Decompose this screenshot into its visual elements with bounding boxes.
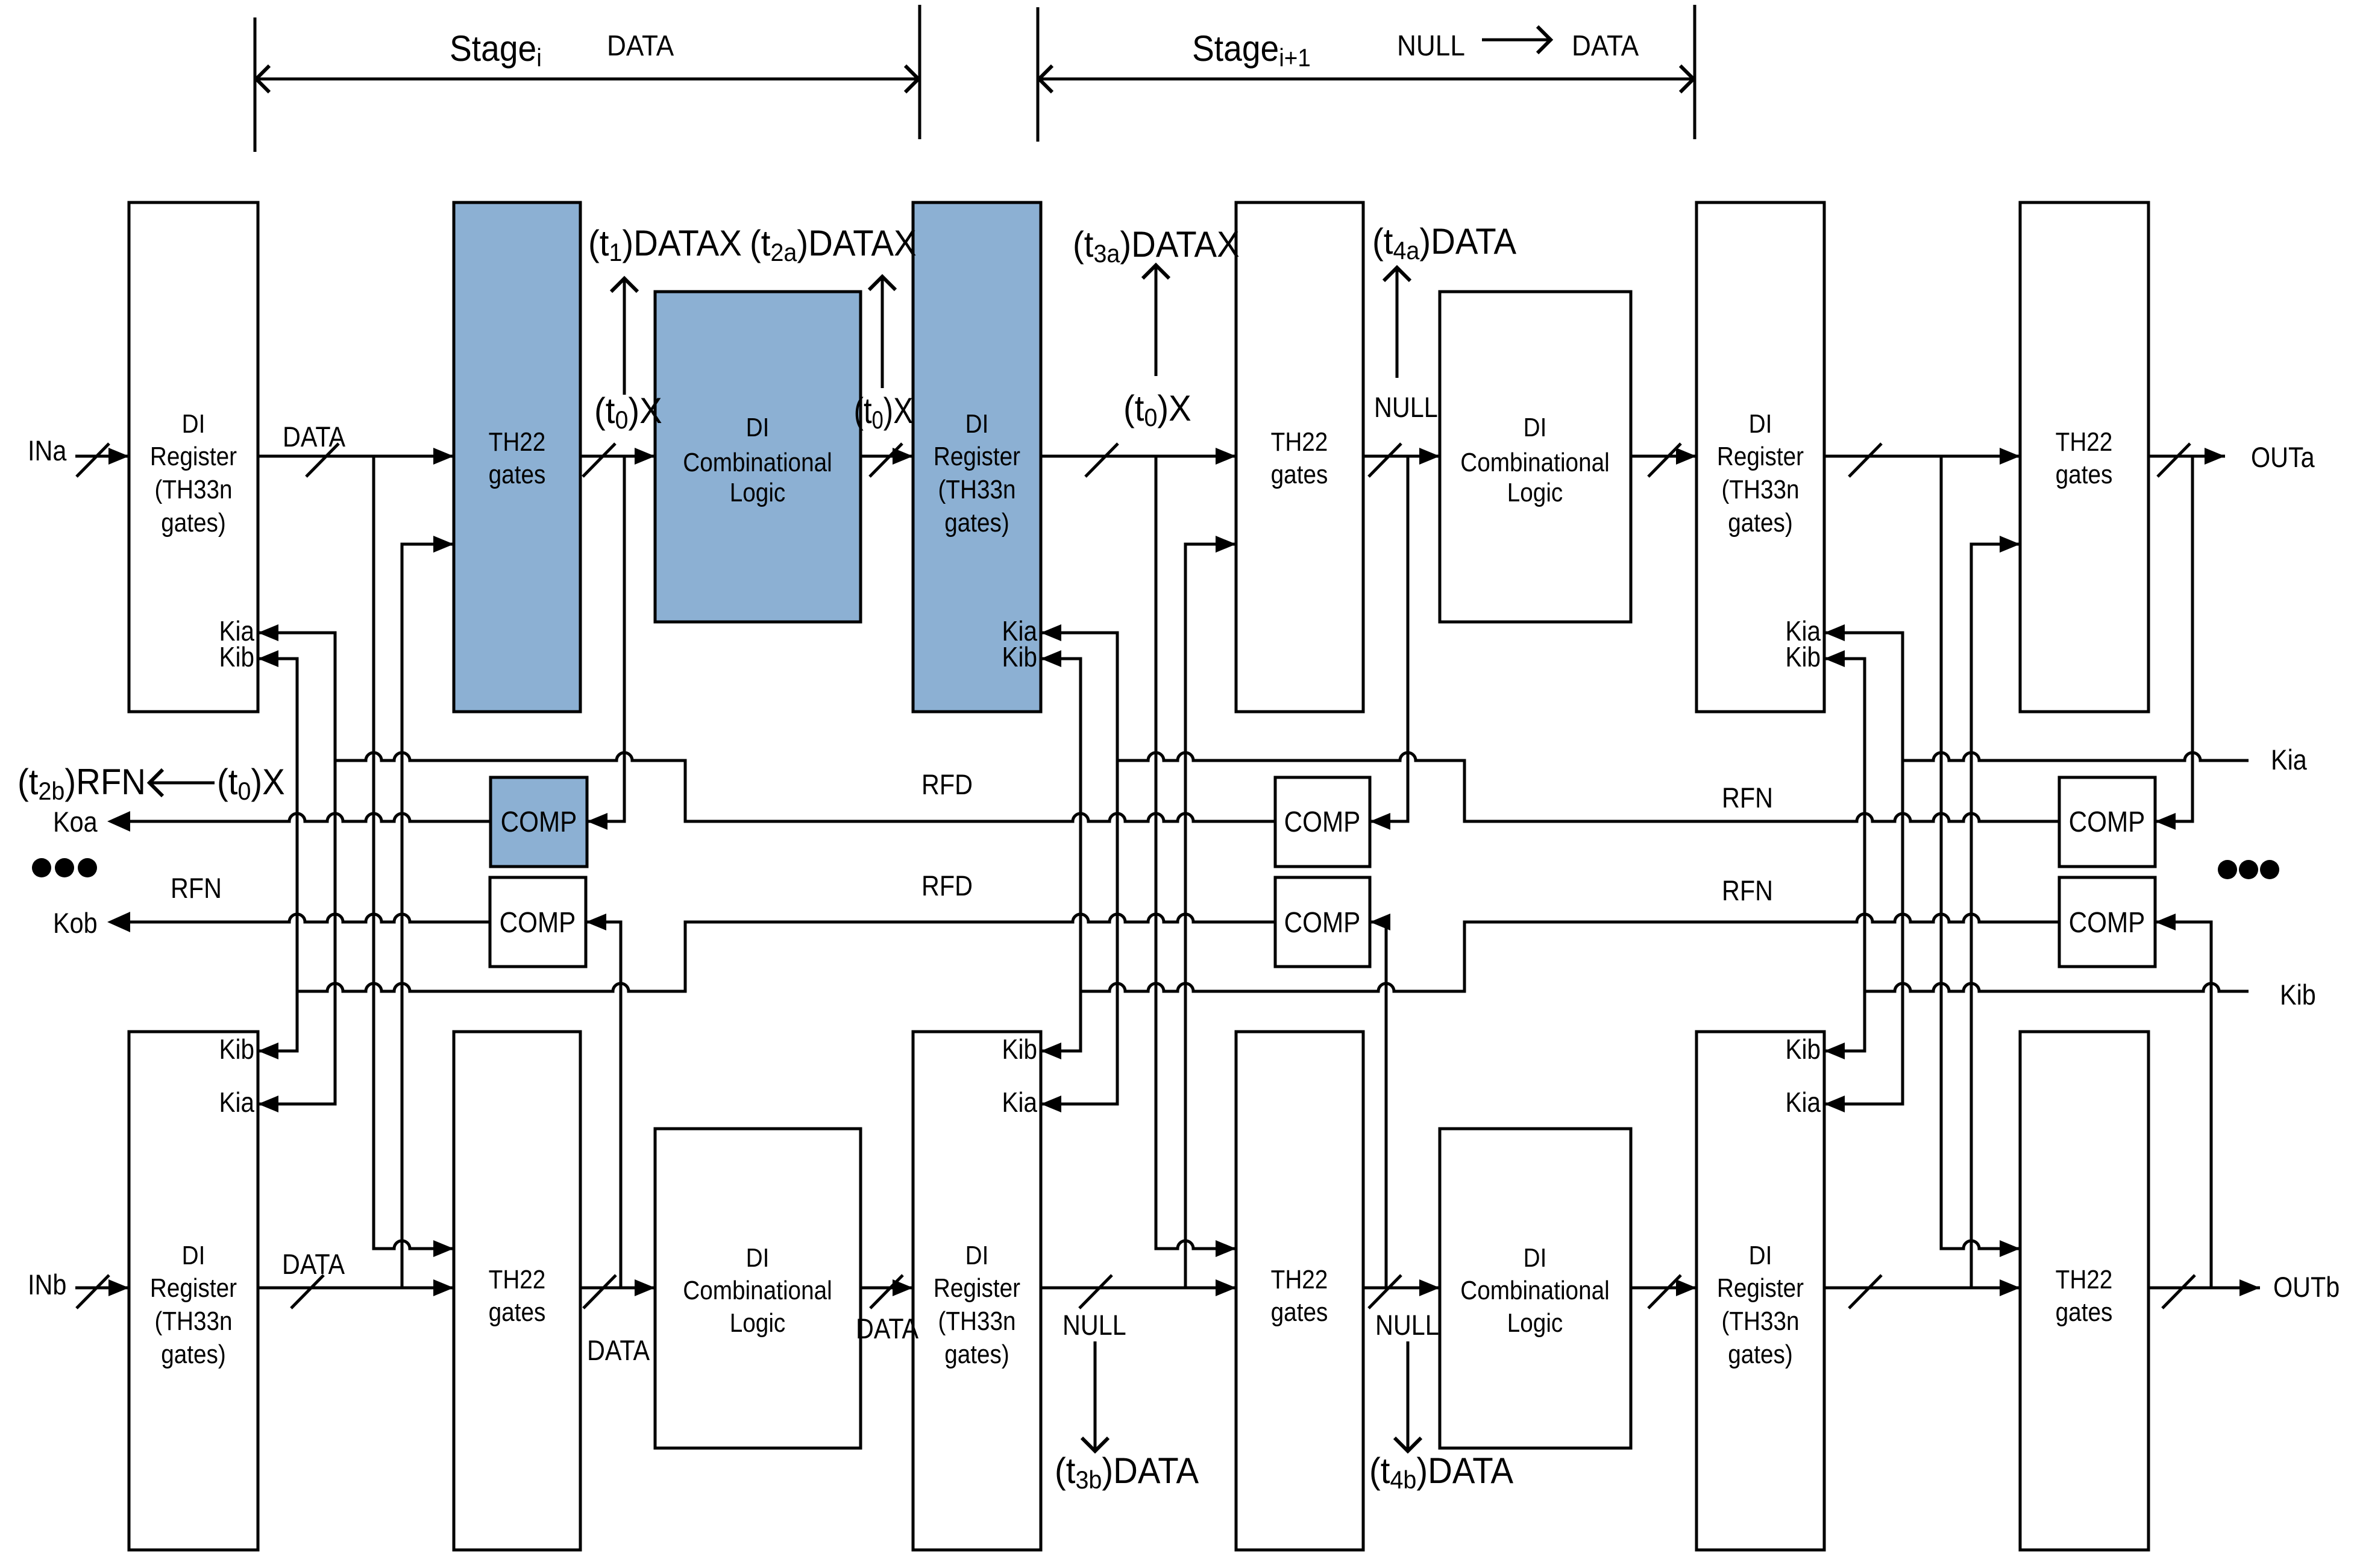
annotation arrow t3b DATA down xyxy=(1094,1341,1097,1451)
svg-text:DI: DI xyxy=(182,409,206,439)
wire E1 output branch down to COMP3 input xyxy=(1370,456,1408,821)
DI register D1 (TH33n) (highlighted) xyxy=(913,202,1041,712)
completion detector COMP2 xyxy=(490,877,586,967)
wire second input to E2 via W3' xyxy=(1156,456,1236,1249)
svg-text:DI: DI xyxy=(1524,412,1547,442)
svg-text:COMP: COMP xyxy=(1284,805,1361,838)
svg-text:COMP: COMP xyxy=(2069,805,2145,838)
svg-text:DI: DI xyxy=(182,1240,206,1270)
svg-text:DI: DI xyxy=(1524,1243,1547,1273)
svg-text:gates: gates xyxy=(2056,1297,2113,1327)
svg-text:RFN: RFN xyxy=(1722,876,1773,907)
wire F2 to G2 xyxy=(1631,1287,1696,1290)
svg-text:RFD: RFD xyxy=(921,770,973,801)
svg-text:TH22: TH22 xyxy=(2056,427,2113,457)
svg-text:DATA: DATA xyxy=(1572,29,1639,61)
svg-text:gates: gates xyxy=(489,459,546,489)
stage-i dimension bar right xyxy=(918,5,921,139)
svg-text:Kib: Kib xyxy=(2280,980,2316,1011)
wire Kia to D1 and D2 via W2' xyxy=(1041,633,1117,1104)
wire second input to B1 from bottom rail via W4 xyxy=(402,544,454,1288)
svg-text:TH22: TH22 xyxy=(1271,427,1328,457)
svg-text:Kia: Kia xyxy=(1786,1088,1821,1118)
svg-text:gates): gates) xyxy=(1728,1339,1793,1369)
svg-text:Register: Register xyxy=(150,1273,237,1303)
stage-i+1 dimension bar left xyxy=(1037,7,1040,142)
DI register G2 (TH33n) xyxy=(1696,1032,1824,1550)
wire B2 output branch up to COMP2 input xyxy=(586,922,621,1288)
svg-text:Logic: Logic xyxy=(1507,477,1563,507)
svg-text:DATA: DATA xyxy=(856,1314,919,1345)
stage-i+1 dim arrow left xyxy=(1039,66,1052,92)
svg-text:gates): gates) xyxy=(1728,507,1793,538)
TH22 gates E1 xyxy=(1236,202,1363,712)
DI combinational logic F2 xyxy=(1440,1129,1631,1448)
annotation arrow t2b RFN left xyxy=(149,782,215,785)
svg-text:DATA: DATA xyxy=(283,422,346,453)
annotation arrow t1 DATAX up xyxy=(623,278,626,395)
svg-text:DI: DI xyxy=(746,412,770,442)
wire A2 to B2 DATA xyxy=(258,1287,454,1290)
svg-text:(TH33n: (TH33n xyxy=(154,474,232,504)
svg-text:(TH33n: (TH33n xyxy=(154,1306,232,1336)
annotation arrow t2a DATAX up xyxy=(881,277,884,388)
svg-text:(TH33n: (TH33n xyxy=(1721,474,1799,504)
svg-text:Logic: Logic xyxy=(1507,1308,1563,1338)
DI register A2 (TH33n) bottom row INb xyxy=(129,1032,258,1550)
svg-text:DI: DI xyxy=(965,409,989,439)
wire D2 to E2 xyxy=(1041,1287,1236,1290)
svg-text:Kia: Kia xyxy=(1002,1088,1038,1118)
wire Kib to D1 and D2 via W1' xyxy=(1041,659,1081,1051)
wire G1 to H1 xyxy=(1824,455,2020,458)
wire RFN feedback from COMP5 to Kia of D registers xyxy=(1117,753,2059,821)
wire F1 to G1 xyxy=(1631,455,1696,458)
svg-text:gates): gates) xyxy=(161,1339,226,1369)
svg-text:NULL: NULL xyxy=(1375,1310,1439,1341)
wire C2 to D2 xyxy=(861,1287,913,1290)
wire H2 to OUTb xyxy=(2148,1287,2260,1290)
wire second input to H1 via W4'' xyxy=(1971,544,2020,1288)
svg-text:OUTb: OUTb xyxy=(2273,1272,2340,1303)
svg-text:(t0)X: (t0)X xyxy=(594,390,662,434)
stage-i+1 dimension bar right xyxy=(1693,5,1696,139)
wire E1 to F1 xyxy=(1363,455,1440,458)
svg-text:gates): gates) xyxy=(161,507,226,538)
svg-text:RFN: RFN xyxy=(1722,783,1773,814)
svg-text:Register: Register xyxy=(1717,441,1804,471)
wire E2 output branch up to COMP4 input xyxy=(1370,922,1386,1288)
svg-text:DI: DI xyxy=(746,1243,770,1273)
annotation arrow t4a DATA up xyxy=(1396,268,1399,378)
arrowhead Kob xyxy=(107,912,130,932)
wire B1 to C1 xyxy=(580,455,655,458)
TH22 gates B1 (highlighted) xyxy=(454,202,580,712)
svg-text:Kib: Kib xyxy=(1786,642,1821,673)
svg-text:COMP: COMP xyxy=(500,906,576,938)
svg-text:Kib: Kib xyxy=(1002,642,1037,673)
ellipsis dots left xyxy=(32,858,51,877)
stage-i+1 dim arrow right xyxy=(1680,66,1693,92)
svg-text:(TH33n: (TH33n xyxy=(938,474,1015,504)
svg-text:RFD: RFD xyxy=(921,871,973,902)
svg-text:DI: DI xyxy=(1749,409,1772,439)
DI combinational logic C2 xyxy=(655,1129,861,1448)
wire RFN feedback from COMP6 to Kib of D registers xyxy=(1081,914,2059,991)
svg-text:TH22: TH22 xyxy=(489,427,546,457)
DI register D2 (TH33n) xyxy=(913,1032,1041,1550)
wire RFD feedback from COMP3 to Kia of A registers xyxy=(335,753,1275,821)
wire G2 to H2 xyxy=(1824,1287,2020,1290)
svg-text:Kib: Kib xyxy=(1786,1035,1821,1065)
stage-i dimension bar left xyxy=(254,17,257,152)
svg-text:(TH33n: (TH33n xyxy=(938,1306,1015,1336)
wire Kib to G1 and G2 via W1'' xyxy=(1824,659,1865,1051)
stage-i dim arrow left xyxy=(256,66,269,92)
svg-text:RFN: RFN xyxy=(171,873,222,905)
wire RFD feedback from COMP4 to Kib of A registers xyxy=(297,914,1275,991)
svg-text:Register: Register xyxy=(1717,1273,1804,1303)
wire A1 to B1 DATA xyxy=(258,455,454,458)
svg-text:OUTa: OUTa xyxy=(2251,442,2315,474)
TH22 gates H2 xyxy=(2020,1032,2148,1550)
svg-text:TH22: TH22 xyxy=(1271,1264,1328,1294)
stage-i dimension line xyxy=(255,78,920,81)
annotation arrow t3a DATAX up xyxy=(1155,265,1158,376)
svg-text:Combinational: Combinational xyxy=(1460,447,1609,477)
svg-text:(t0)X: (t0)X xyxy=(1123,388,1191,431)
wire C1 to D1 xyxy=(861,455,913,458)
svg-text:Kob: Kob xyxy=(53,908,98,939)
wire Kia to G1 and G2 via W2'' xyxy=(1824,633,1903,1104)
TH22 gates B2 xyxy=(454,1032,580,1550)
DI combinational logic C1 (highlighted) xyxy=(655,292,861,622)
svg-text:TH22: TH22 xyxy=(2056,1264,2113,1294)
stage-i+1 dimension line xyxy=(1038,78,1695,81)
wire B1 output branch down to COMP1 input xyxy=(587,456,624,821)
TH22 gates H1 xyxy=(2020,202,2148,712)
svg-text:gates): gates) xyxy=(944,1339,1009,1369)
svg-text:Koa: Koa xyxy=(53,807,98,838)
svg-text:Stagei: Stagei xyxy=(450,29,542,72)
svg-text:DATA: DATA xyxy=(282,1249,345,1281)
svg-text:NULL: NULL xyxy=(1397,29,1465,61)
svg-text:Combinational: Combinational xyxy=(683,447,832,477)
svg-text:(TH33n: (TH33n xyxy=(1721,1306,1799,1336)
wire COMP1 output to Koa xyxy=(128,814,491,821)
wire second input to B2 from top rail via W3 xyxy=(374,456,454,1249)
svg-text:(t2b)RFN: (t2b)RFN xyxy=(17,762,146,805)
svg-text:Logic: Logic xyxy=(730,477,786,507)
svg-text:INa: INa xyxy=(28,436,67,467)
svg-text:Register: Register xyxy=(150,441,237,471)
wire second input to E1 via W4' xyxy=(1185,544,1236,1288)
svg-text:NULL: NULL xyxy=(1374,392,1438,424)
svg-text:gates): gates) xyxy=(944,507,1009,538)
wire Kib to A1 and A2 via W1 xyxy=(258,659,297,1051)
svg-text:INb: INb xyxy=(28,1270,66,1301)
svg-text:Kib: Kib xyxy=(1002,1035,1037,1065)
wire H1 output branch down to COMP5 input xyxy=(2155,456,2192,821)
svg-text:Register: Register xyxy=(934,1273,1020,1303)
wire external Kia bus to G registers xyxy=(1903,753,2249,760)
svg-text:(t0)X: (t0)X xyxy=(854,390,913,434)
svg-text:COMP: COMP xyxy=(501,805,577,838)
svg-text:DI: DI xyxy=(1749,1240,1772,1270)
annotation arrow t4b DATA down xyxy=(1407,1341,1410,1451)
svg-text:Kia: Kia xyxy=(219,1088,255,1118)
svg-text:(t0)X: (t0)X xyxy=(217,762,285,805)
wire H2 output branch up to COMP6 input xyxy=(2155,922,2211,1288)
svg-text:gates: gates xyxy=(1271,1297,1328,1327)
completion detector COMP5 xyxy=(2059,777,2155,867)
completion detector COMP6 xyxy=(2059,877,2155,967)
wire Kia to A1 and A2 via W2 xyxy=(258,633,335,1104)
svg-text:Kib: Kib xyxy=(219,1035,254,1065)
svg-text:Kia: Kia xyxy=(2271,745,2307,776)
wire D1 to E1 xyxy=(1041,455,1236,458)
svg-text:gates: gates xyxy=(1271,459,1328,489)
svg-text:NULL: NULL xyxy=(1062,1310,1126,1341)
DI register A1 (TH33n) top row INa xyxy=(129,202,258,712)
svg-text:Logic: Logic xyxy=(730,1308,786,1338)
annotation arrow NULL to DATA xyxy=(1482,39,1549,42)
svg-text:COMP: COMP xyxy=(1284,906,1361,938)
svg-text:DATA: DATA xyxy=(587,1335,650,1367)
svg-text:gates: gates xyxy=(489,1297,546,1327)
svg-text:Combinational: Combinational xyxy=(683,1275,832,1305)
wire second input to H2 via W3'' xyxy=(1941,456,2020,1249)
wire INb into A2 xyxy=(75,1287,129,1290)
wire external Kib bus to G registers xyxy=(1865,983,2249,991)
arrowhead Koa xyxy=(107,811,130,832)
DI combinational logic F1 xyxy=(1440,292,1631,622)
svg-text:DI: DI xyxy=(965,1240,989,1270)
svg-text:DATA: DATA xyxy=(607,29,674,61)
svg-text:gates: gates xyxy=(2056,459,2113,489)
svg-text:Combinational: Combinational xyxy=(1460,1275,1609,1305)
wire INa into A1 xyxy=(75,455,129,458)
wire E2 to F2 xyxy=(1363,1287,1440,1290)
wire B2 to C2 xyxy=(580,1287,655,1290)
DI register G1 (TH33n) xyxy=(1696,202,1824,712)
completion detector COMP3 xyxy=(1275,777,1370,867)
svg-text:TH22: TH22 xyxy=(489,1264,546,1294)
svg-text:COMP: COMP xyxy=(2069,906,2145,938)
ellipsis dots right xyxy=(2218,860,2237,879)
wire H1 to OUTa xyxy=(2148,455,2225,458)
completion detector COMP4 xyxy=(1275,877,1370,967)
completion detector COMP1 (highlighted) xyxy=(491,777,587,867)
svg-text:Kib: Kib xyxy=(219,642,254,673)
wire COMP2 output to Kob xyxy=(128,914,490,922)
TH22 gates E2 xyxy=(1236,1032,1363,1550)
svg-text:Register: Register xyxy=(934,441,1020,471)
stage-i dim arrow right xyxy=(905,66,918,92)
